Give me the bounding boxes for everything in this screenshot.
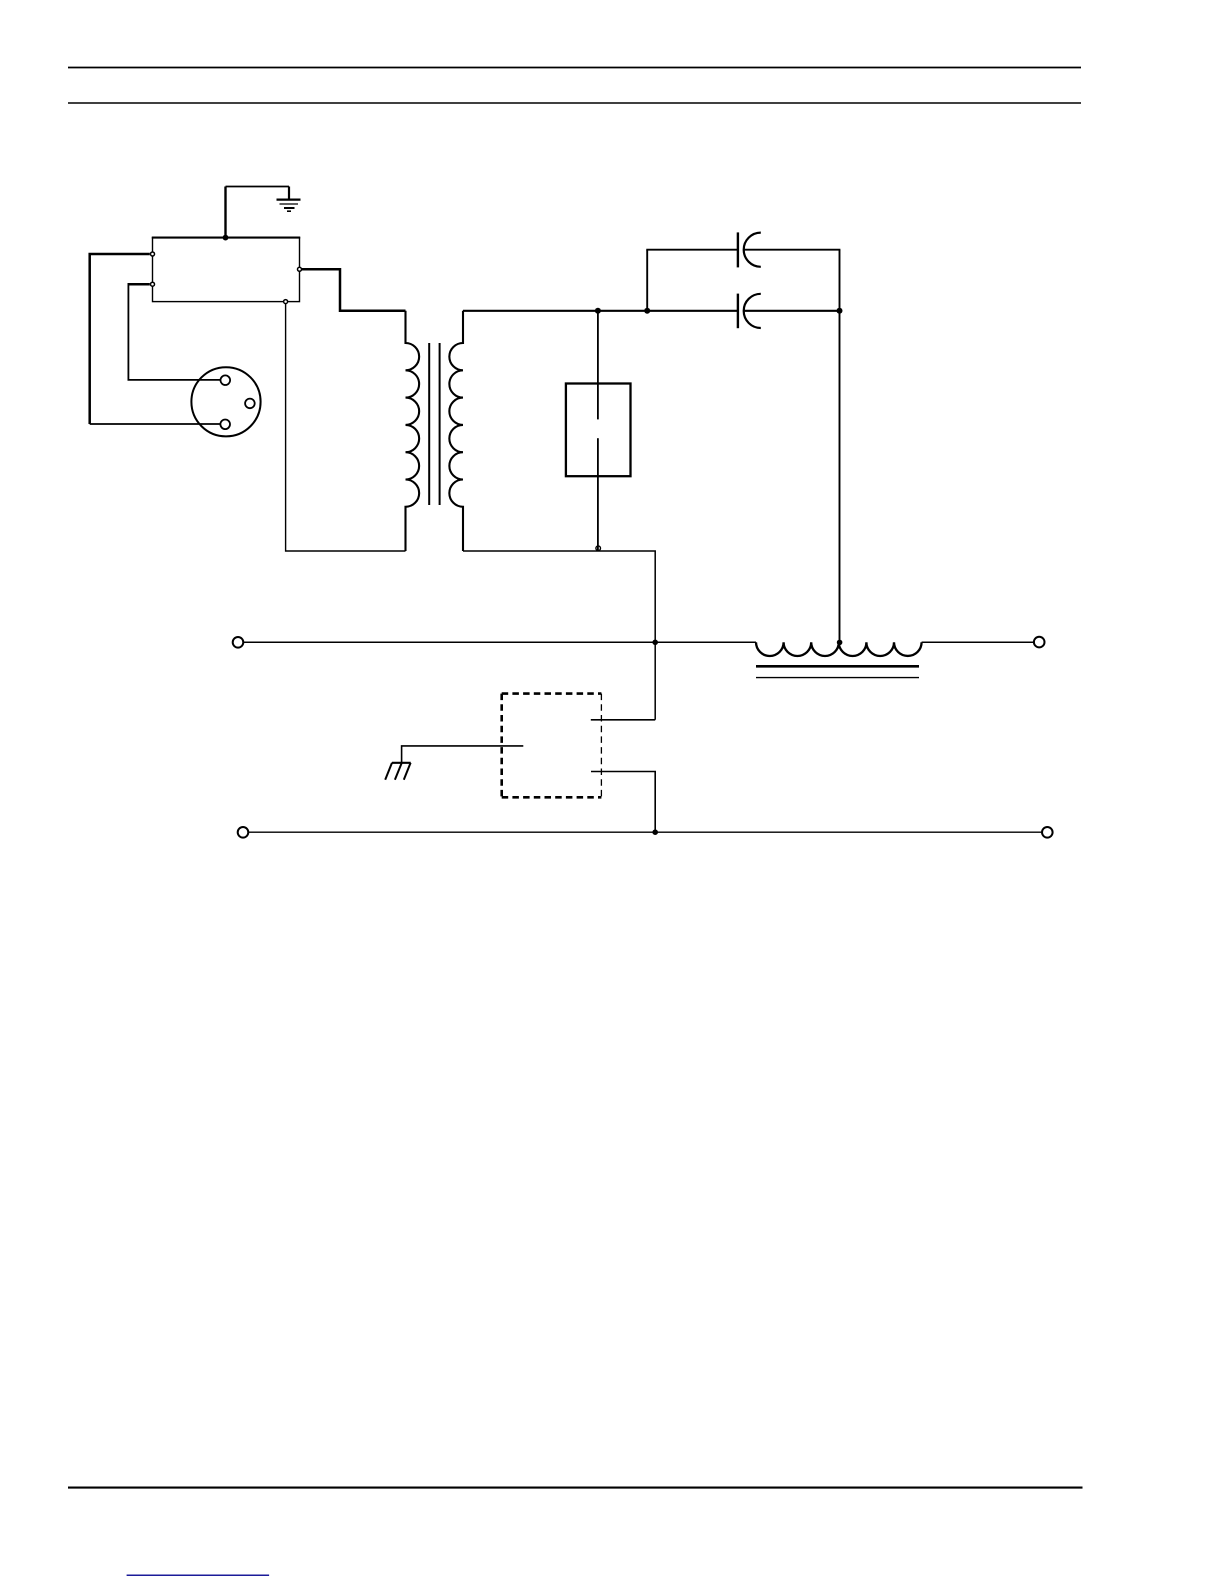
wire ground drop to box xyxy=(224,187,226,238)
terminal output top right xyxy=(1034,637,1045,648)
wire xyxy=(646,249,738,251)
wire right terminal to transformer primary xyxy=(302,269,406,310)
wire xyxy=(128,283,220,380)
wire output bottom line xyxy=(249,831,1042,833)
wire lower-left terminal to connector pin1 xyxy=(128,283,149,286)
module dashed box xyxy=(502,694,602,798)
footer link underline xyxy=(127,1574,270,1576)
footer rule xyxy=(68,1487,1083,1489)
junction center tap xyxy=(837,640,843,646)
header rule bottom xyxy=(68,102,1081,104)
spark gap box xyxy=(566,384,631,477)
transformer secondary winding xyxy=(449,311,463,551)
junction on box top xyxy=(223,235,229,241)
wire upper-left terminal to connector pin3 xyxy=(90,254,150,424)
transformer primary winding xyxy=(406,311,420,551)
spark gap bottom electrode xyxy=(597,438,599,550)
wire capacitor branch left riser xyxy=(646,250,648,311)
input module box top edge (thick) xyxy=(152,237,300,239)
junction xyxy=(652,640,658,646)
earth ground xyxy=(277,187,301,212)
junction xyxy=(837,308,843,314)
terminal box left upper xyxy=(151,252,155,256)
junction xyxy=(652,829,658,835)
terminal box right xyxy=(298,267,302,271)
wire secondary top xyxy=(463,310,738,312)
inductor core bar thick xyxy=(756,665,919,668)
junction xyxy=(644,308,650,314)
wire module upper pin xyxy=(591,719,655,721)
connector (3-pin, rear view) xyxy=(191,367,260,436)
capacitor lower, flat plate xyxy=(737,294,739,329)
terminal output bottom left xyxy=(238,827,249,838)
terminal small xyxy=(596,546,601,551)
inductor winding xyxy=(756,642,922,656)
terminal box bottom xyxy=(284,300,288,304)
wire secondary bottom xyxy=(463,551,655,720)
terminal output top left xyxy=(233,637,244,648)
chassis ground xyxy=(385,763,411,780)
wire xyxy=(744,310,840,312)
terminal box left lower xyxy=(151,282,155,286)
terminal output bottom right xyxy=(1042,827,1053,838)
connector pin 1 xyxy=(221,375,231,385)
connector pin 2 xyxy=(245,399,255,409)
wire xyxy=(744,249,841,251)
inductor core bar thin xyxy=(756,677,919,679)
input module box xyxy=(153,238,300,302)
wire primary return xyxy=(286,304,406,551)
capacitor upper, curved plate xyxy=(744,233,761,267)
wire right drop to inductor tap xyxy=(839,311,841,643)
wire capacitor branch right riser xyxy=(839,250,841,311)
wire chassis ground lead xyxy=(402,746,524,763)
capacitor lower, curved plate xyxy=(744,294,761,328)
wire module lower pin xyxy=(591,772,655,833)
header rule top xyxy=(68,67,1081,69)
wire ground horizontal xyxy=(226,186,290,188)
wire output top line right xyxy=(922,641,1035,643)
capacitor upper, flat plate xyxy=(737,232,739,267)
connector pin 3 xyxy=(220,420,230,430)
spark gap top electrode xyxy=(597,311,599,420)
transformer core xyxy=(428,343,430,505)
wire xyxy=(90,423,221,425)
junction xyxy=(595,308,601,314)
wire output top line left xyxy=(244,641,756,643)
